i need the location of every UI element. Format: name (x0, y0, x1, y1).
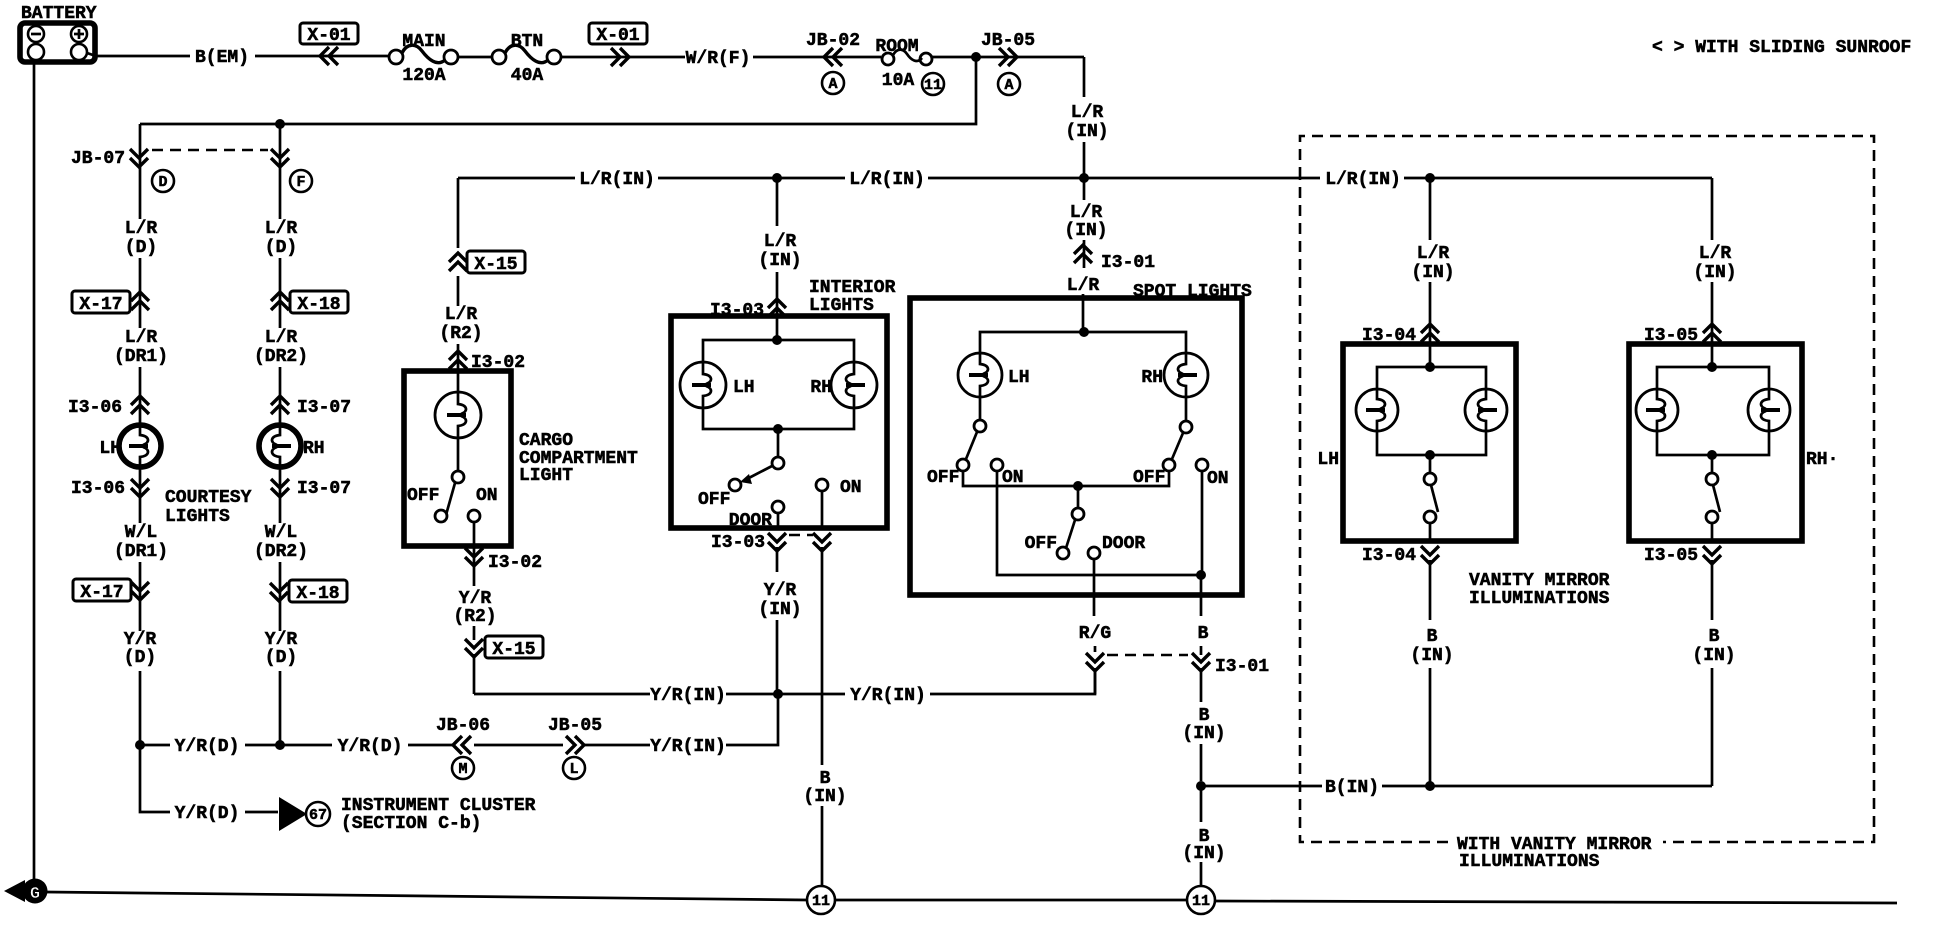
node loop bottom junction (773, 424, 783, 434)
svg-text:(SECTION C-b): (SECTION C-b) (341, 814, 481, 834)
svg-text:OFF: OFF (407, 486, 439, 506)
connector I3-04 chevron (top) (1421, 324, 1439, 342)
svg-text:I3-03: I3-03 (711, 533, 765, 553)
svg-text:G: G (30, 885, 40, 904)
svg-text:X-01: X-01 (596, 26, 639, 46)
battery positive terminal (71, 26, 87, 42)
connector I3-07 chevron (below lamp) (271, 479, 289, 497)
connector X-18 chevron (bottom) (270, 583, 288, 601)
svg-text:(D): (D) (124, 648, 156, 668)
svg-text:LH: LH (1317, 450, 1339, 470)
svg-text:I3-01: I3-01 (1215, 657, 1269, 677)
node Y/R(D) junction RH (275, 740, 285, 750)
wire L/R(IN) drop from JB-05 (1083, 57, 1086, 97)
connector I3-01 chevron (bottom right) (1192, 653, 1210, 671)
svg-text:40A: 40A (511, 66, 544, 86)
svg-text:B: B (1199, 706, 1210, 726)
svg-text:L/R: L/R (125, 328, 158, 348)
connector X-18 label box (bottom) (289, 580, 347, 602)
svg-text:67: 67 (309, 807, 327, 824)
connector X-15 chevron (cargo bottom) (465, 639, 483, 657)
svg-text:DOOR: DOOR (729, 511, 772, 531)
connector X-17 label box (bottom) (73, 579, 131, 601)
wire RH to X-18 (279, 258, 282, 328)
svg-text:< > WITH SLIDING SUNROOF: < > WITH SLIDING SUNROOF (1652, 38, 1911, 58)
wire RH to Y/R(D) junction (279, 671, 282, 747)
terminal 11 circle (interior) (807, 886, 835, 914)
svg-text:W/L: W/L (265, 523, 297, 543)
switch OFF terminal (cargo) (435, 510, 447, 522)
svg-text:(IN): (IN) (1693, 263, 1736, 283)
connector I3-04 chevron (bottom) (1421, 546, 1439, 564)
svg-text:B: B (820, 769, 831, 789)
svg-text:X-15: X-15 (492, 640, 535, 660)
switch lower terminal (vanity RH) (1706, 511, 1718, 523)
svg-text:ON: ON (476, 486, 498, 506)
svg-text:Y/R: Y/R (459, 589, 492, 609)
svg-text:DOOR: DOOR (1102, 534, 1145, 554)
svg-text:Y/R: Y/R (265, 630, 298, 650)
wire RH to lamp (279, 367, 282, 425)
connector X-18 chevron (top) (271, 292, 289, 310)
svg-text:ILLUMINATIONS: ILLUMINATIONS (1459, 852, 1600, 872)
wire LH to lamp (139, 367, 142, 425)
lamp interior LH (680, 362, 726, 408)
svg-text:JB-05: JB-05 (981, 31, 1035, 51)
svg-text:B: B (1198, 624, 1209, 644)
svg-text:I3-06: I3-06 (68, 398, 122, 418)
switch lever (cargo) (444, 483, 455, 522)
terminal M circle (452, 757, 474, 779)
wire LH to Y/R(D) junction (139, 671, 142, 747)
svg-text:Y/R: Y/R (124, 630, 157, 650)
switch box INTERIOR LIGHTS (671, 316, 887, 528)
node spot loop junction (1079, 327, 1089, 337)
wire courtesy LH branch upper (139, 124, 142, 219)
fuse ROOM 10A (882, 53, 894, 65)
wire B(IN) to ground (1200, 786, 1203, 886)
svg-text:(DR2): (DR2) (254, 542, 308, 562)
svg-text:W/L: W/L (125, 523, 157, 543)
wire interior lamp loop (703, 340, 854, 429)
terminal D circle (152, 170, 174, 192)
svg-text:L/R: L/R (265, 328, 298, 348)
svg-text:W/R(F): W/R(F) (686, 49, 751, 69)
lamp courtesy LH (119, 425, 161, 467)
svg-text:X-15: X-15 (474, 255, 517, 275)
switch upper terminal (spot LH) (974, 420, 986, 432)
svg-text:D: D (158, 174, 167, 191)
svg-text:F: F (296, 174, 305, 191)
svg-text:B: B (1427, 627, 1438, 647)
svg-text:Y/R(IN): Y/R(IN) (850, 686, 926, 706)
terminal L circle (563, 757, 585, 779)
connector I3-05 chevron (bottom) (1703, 546, 1721, 564)
wire dashed link I3-01 (1107, 654, 1188, 657)
wire Y/R(IN) upper line (474, 668, 1095, 694)
switch pivot terminal (spot center) (1072, 508, 1084, 520)
switch lever (spot RH) (1172, 433, 1183, 459)
wire sub-feed down from junction (140, 57, 976, 124)
lamp vanity RH left (1636, 389, 1678, 431)
svg-text:L/R: L/R (265, 219, 298, 239)
connector I3-02 chevron (top) (449, 351, 467, 369)
switch lever (interior) (745, 466, 772, 480)
connector I3-05 chevron (top) (1703, 324, 1721, 342)
svg-text:L/R(IN): L/R(IN) (579, 170, 655, 190)
svg-text:LH: LH (733, 378, 755, 398)
svg-text:L/R: L/R (1071, 103, 1104, 123)
svg-text:INTERIOR: INTERIOR (809, 278, 896, 298)
svg-text:(D): (D) (265, 648, 297, 668)
svg-text:(IN): (IN) (1064, 221, 1107, 241)
switch box vanity LH (1343, 344, 1516, 541)
svg-text:LH: LH (1008, 368, 1030, 388)
connector JB-06 chevron (453, 736, 471, 754)
connector I3-07 chevron (above lamp) (271, 396, 289, 414)
connector X-17 chevron (bottom) (131, 582, 149, 600)
switch upper terminal (vanity LH) (1424, 473, 1436, 485)
lamp vanity RH right (1748, 389, 1790, 431)
node vanity LH loop top (1425, 362, 1435, 372)
connector X-01 label box (300, 23, 358, 44)
svg-text:(IN): (IN) (1410, 646, 1453, 666)
switch upper terminal (spot RH) (1180, 421, 1192, 433)
connector I3-01 chevron (top) (1074, 245, 1092, 263)
wire spot DOOR down R/G (1094, 559, 1095, 694)
wire LH below lamp (139, 467, 142, 523)
connector I3-03 chevron (top) (768, 299, 786, 317)
battery BATTERY (20, 23, 95, 62)
wire interior DOOR down (777, 513, 778, 694)
connector JB-02 chevron (824, 48, 842, 66)
node spot OFF link junction (1073, 481, 1083, 491)
svg-text:(R2): (R2) (439, 324, 482, 344)
svg-text:L/R: L/R (764, 232, 797, 252)
switch box vanity RH (1629, 344, 1802, 541)
connector JB-05 chevron (bottom) (566, 736, 584, 754)
wire ground line (46, 892, 1897, 903)
svg-text:Y/R: Y/R (764, 581, 797, 601)
svg-text:Y/R(D): Y/R(D) (175, 737, 240, 757)
svg-text:LH: LH (99, 439, 121, 459)
svg-text:X-18: X-18 (297, 295, 340, 315)
node Y/R(D) junction LH (135, 740, 145, 750)
lamp courtesy RH (259, 425, 301, 467)
svg-text:(IN): (IN) (803, 787, 846, 807)
lamp spot LH (958, 353, 1002, 397)
svg-text:I3-06: I3-06 (71, 479, 125, 499)
switch pivot terminal (interior) (772, 457, 784, 469)
svg-text:(DR1): (DR1) (114, 347, 168, 367)
switch DOOR terminal (spot center) (1088, 547, 1100, 559)
svg-text:JB-07: JB-07 (71, 149, 125, 169)
terminal F circle (290, 170, 312, 192)
switch ON terminal (spot LH) (991, 459, 1003, 471)
connector X-15 chevron (cargo top) (449, 253, 467, 271)
svg-text:11: 11 (812, 893, 830, 910)
wire cargo branch from bus (457, 178, 460, 306)
svg-text:11: 11 (1192, 893, 1210, 910)
svg-text:I3-07: I3-07 (297, 398, 351, 418)
terminal 11 circle (spot) (1187, 886, 1215, 914)
wire spot RH ON down (1201, 471, 1202, 781)
switch DOOR terminal (interior) (772, 501, 784, 513)
switch OFF terminal (spot LH) (957, 459, 969, 471)
svg-text:120A: 120A (402, 66, 445, 86)
connector X-01 chevron (right) (611, 48, 629, 66)
wire B(EM) to connector X-01 (255, 55, 390, 58)
node vanity RH loop top (1707, 362, 1717, 372)
wire vanity LH branch from bus (1429, 178, 1432, 367)
connector X-17 label box (top) (72, 291, 130, 313)
svg-text:I3-07: I3-07 (297, 479, 351, 499)
battery negative terminal (28, 26, 44, 42)
svg-text:MAIN: MAIN (402, 32, 445, 52)
svg-text:L/R: L/R (1067, 276, 1100, 296)
svg-text:OFF: OFF (698, 490, 730, 510)
fuse MAIN 120A (389, 50, 403, 64)
wire interior branch from bus (776, 178, 779, 340)
wire spot OFF link (963, 471, 1169, 486)
connector JB-05 chevron (999, 48, 1017, 66)
node B(IN) junction (1196, 781, 1206, 791)
wire loop to switch (vanity LH) (1429, 455, 1432, 473)
switch box CARGO COMPARTMENT LIGHT (404, 371, 511, 546)
wire W/R(F) to JB-02 (753, 56, 881, 59)
svg-text:Y/R(D): Y/R(D) (175, 804, 240, 824)
ground symbol G (23, 879, 48, 904)
wire spot branch from bus (1083, 178, 1084, 332)
wire battery negative to ground (33, 62, 36, 879)
switch lever (vanity LH) (1431, 485, 1438, 512)
svg-text:JB-06: JB-06 (436, 716, 490, 736)
svg-text:X-18: X-18 (296, 584, 339, 604)
wire B(EM) segment (87, 53, 190, 56)
svg-text:Y/R(IN): Y/R(IN) (650, 737, 726, 757)
wire RH below lamp (279, 467, 282, 523)
wire loop to switch (vanity RH) (1711, 455, 1714, 473)
lamp interior RH (831, 362, 877, 408)
svg-text:BTN: BTN (511, 32, 543, 52)
arrow to instrument cluster (279, 797, 307, 831)
svg-text:B(IN): B(IN) (1325, 778, 1379, 798)
svg-text:B: B (1709, 627, 1720, 647)
wire vanity LH lamp loop (1377, 367, 1486, 455)
lamp cargo compartment (435, 392, 481, 438)
wire LH to X-17 (139, 258, 142, 328)
svg-text:RH: RH (303, 439, 325, 459)
lamp vanity LH right (1465, 389, 1507, 431)
switch OFF terminal (spot RH) (1163, 459, 1175, 471)
svg-text:(IN): (IN) (1182, 724, 1225, 744)
svg-text:10A: 10A (882, 71, 915, 91)
connector JB-07 chevron (D) (130, 149, 148, 167)
connector X-01 label box (right) (589, 23, 647, 44)
svg-text:L/R: L/R (1070, 203, 1103, 223)
lamp vanity LH left (1356, 389, 1398, 431)
battery positive post (71, 44, 87, 60)
switch lever (vanity RH) (1713, 485, 1720, 512)
svg-text:ON: ON (840, 478, 862, 498)
node spot ON link junction (1196, 570, 1206, 580)
wire B(IN) horizontal (1201, 785, 1712, 788)
svg-text:OFF: OFF (1025, 534, 1057, 554)
terminal A circle (JB-05) (998, 73, 1020, 95)
dashed option box with vanity mirror illuminations (1300, 136, 1874, 842)
svg-text:CARGO: CARGO (519, 431, 573, 451)
svg-text:LIGHTS: LIGHTS (809, 296, 874, 316)
node bus junction vanity LH (1425, 173, 1435, 183)
wire spot RH lamp to switch (1185, 397, 1188, 421)
connector X-18 label box (top) (290, 291, 348, 313)
svg-text:R/G: R/G (1079, 624, 1111, 644)
svg-text:INSTRUMENT CLUSTER: INSTRUMENT CLUSTER (341, 796, 536, 816)
svg-text:VANITY MIRROR: VANITY MIRROR (1469, 571, 1610, 591)
connector X-01 chevron (320, 47, 338, 65)
switch ON terminal (cargo) (468, 510, 480, 522)
fuse BTN 40A (492, 50, 506, 64)
svg-text:Y/R(IN): Y/R(IN) (650, 686, 726, 706)
wire cargo to I3-02 (457, 344, 460, 392)
svg-text:L/R: L/R (1699, 244, 1732, 264)
svg-text:JB-02: JB-02 (806, 31, 860, 51)
connector I3-02 chevron (bottom) (465, 548, 483, 566)
wire L/R(IN) drop to bus (1083, 142, 1086, 178)
node B(IN) junction vanity LH (1425, 781, 1435, 791)
svg-text:A: A (1004, 77, 1013, 94)
svg-text:I3-02: I3-02 (488, 553, 542, 573)
wire vanity RH lamp loop (1657, 367, 1769, 455)
svg-text:ILLUMINATIONS: ILLUMINATIONS (1469, 589, 1610, 609)
switch lever (spot center) (1066, 520, 1075, 548)
wire interior ON down (821, 491, 824, 886)
svg-text:M: M (458, 761, 467, 778)
wire to interior switch pivot (777, 429, 780, 457)
svg-text:L: L (569, 761, 578, 778)
connector I3-03 chevron (bottom left) (768, 533, 786, 551)
svg-text:(DR2): (DR2) (254, 347, 308, 367)
wire vanity RH branch from bus (1711, 178, 1714, 367)
svg-text:RH: RH (810, 378, 832, 398)
svg-text:LIGHTS: LIGHTS (165, 507, 230, 527)
svg-text:I3-05: I3-05 (1644, 546, 1698, 566)
svg-text:RH: RH (1141, 368, 1163, 388)
node junction at JB-05 feed (971, 52, 981, 62)
svg-text:(IN): (IN) (1411, 263, 1454, 283)
svg-text:OFF: OFF (927, 468, 959, 488)
svg-text:(D): (D) (125, 238, 157, 258)
wire RH to X-18 bottom (279, 562, 282, 631)
connector I3-06 chevron (below lamp) (131, 479, 149, 497)
switch upper terminal (vanity RH) (1706, 473, 1718, 485)
wire ROOM fuse to JB-05 (932, 56, 1084, 59)
svg-text:ROOM: ROOM (875, 37, 918, 57)
wire vanity LH down (1429, 523, 1432, 786)
wire L/R(IN) bus (458, 177, 1712, 180)
switch ON terminal (spot RH) (1196, 459, 1208, 471)
svg-text:JB-05: JB-05 (548, 716, 602, 736)
node bus junction interior (772, 173, 782, 183)
connector I3-06 chevron (above lamp) (131, 396, 149, 414)
svg-text:(IN): (IN) (1065, 122, 1108, 142)
svg-text:(IN): (IN) (1692, 646, 1735, 666)
svg-text:Y/R(D): Y/R(D) (338, 737, 403, 757)
connector I3-01 chevron (bottom left) (1086, 653, 1104, 671)
wire JB-07 dashed link (152, 149, 268, 152)
switch ON terminal (interior) (816, 479, 828, 491)
switch OFF terminal (spot center) (1057, 547, 1069, 559)
connector I3-03 chevron (bottom right) (813, 533, 831, 551)
svg-text:L/R: L/R (445, 305, 478, 325)
svg-text:COURTESY: COURTESY (165, 488, 252, 508)
svg-text:(IN): (IN) (758, 600, 801, 620)
node bus junction spot (1079, 173, 1089, 183)
svg-text:X-17: X-17 (80, 583, 123, 603)
wire between fuses (458, 56, 492, 59)
node Y/R(IN) junction (773, 689, 783, 699)
wire Y/R(D) junction line (140, 694, 778, 745)
svg-text:RH·: RH· (1806, 450, 1838, 470)
svg-text:L/R: L/R (1417, 244, 1450, 264)
svg-text:(DR1): (DR1) (114, 542, 168, 562)
svg-text:X-17: X-17 (79, 295, 122, 315)
svg-text:L/R(IN): L/R(IN) (1325, 170, 1401, 190)
svg-text:(D): (D) (265, 238, 297, 258)
svg-text:I3-01: I3-01 (1101, 253, 1155, 273)
wire LH to X-17 bottom (139, 562, 142, 631)
svg-text:ON: ON (1207, 469, 1229, 489)
battery negative post (28, 44, 44, 60)
node loop top junction (772, 335, 782, 345)
node junction sub-feed at F branch (275, 119, 285, 129)
switch pivot terminal (cargo) (452, 471, 464, 483)
svg-text:L/R(IN): L/R(IN) (849, 170, 925, 190)
wire vanity RH down (1711, 523, 1714, 786)
svg-text:A: A (828, 76, 837, 93)
svg-text:(IN): (IN) (1182, 844, 1225, 864)
svg-text:I3-04: I3-04 (1362, 546, 1416, 566)
wire cargo ON down (473, 522, 476, 694)
terminal A circle (JB-02) (822, 72, 844, 94)
svg-text:L/R: L/R (125, 219, 158, 239)
node vanity LH loop bottom (1425, 450, 1435, 460)
wire spot LH lamp to switch (979, 397, 982, 420)
connector X-15 label box (cargo top) (467, 251, 525, 273)
node vanity RH loop bottom (1707, 450, 1717, 460)
wire spot ON link (997, 471, 1201, 575)
switch box SPOT LIGHTS (910, 298, 1242, 595)
svg-text:(IN): (IN) (758, 251, 801, 271)
connector X-17 chevron (top) (131, 292, 149, 310)
svg-text:11: 11 (924, 77, 942, 94)
connector JB-07 chevron (F) (271, 149, 289, 167)
switch OFF terminal (interior) (729, 479, 741, 491)
svg-text:(R2): (R2) (453, 607, 496, 627)
wire dashed link between I3-03 chevrons (789, 534, 813, 537)
wire spot lamp loop top (980, 332, 1186, 354)
wire lamp to switch pivot (457, 438, 460, 471)
wire instrument cluster branch (140, 745, 278, 812)
terminal 11 circle (ROOM fuse) (922, 73, 944, 95)
wire BTN fuse to connector X-01 (561, 56, 685, 59)
svg-text:LIGHT: LIGHT (519, 466, 573, 486)
terminal 67 circle (306, 802, 330, 826)
switch lower terminal (vanity LH) (1424, 511, 1436, 523)
switch lever (spot LH) (966, 432, 977, 459)
svg-text:B(EM): B(EM) (195, 48, 249, 68)
lamp spot RH (1164, 353, 1208, 397)
